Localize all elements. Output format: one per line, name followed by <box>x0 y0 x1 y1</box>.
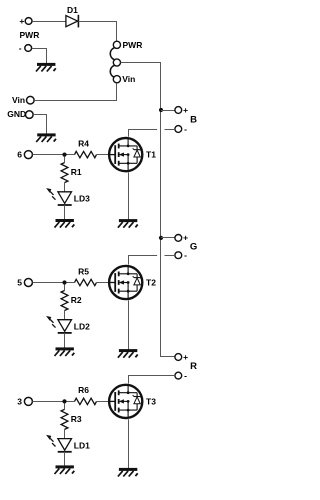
terminal PWR- <box>25 45 32 52</box>
wire <box>97 282 110 284</box>
node gate junction <box>62 153 66 157</box>
svg-text:Vin: Vin <box>12 95 25 105</box>
svg-text:T2: T2 <box>146 278 156 288</box>
node B+ junction <box>159 108 163 112</box>
svg-text:+: + <box>183 352 188 362</box>
ground <box>119 219 137 222</box>
node G+ junction <box>159 236 163 240</box>
LED LD3 <box>58 192 72 204</box>
wire <box>32 21 66 23</box>
svg-text:R3: R3 <box>71 414 82 424</box>
svg-text:D1: D1 <box>67 5 78 15</box>
wire drain <box>129 256 158 265</box>
wire <box>64 311 66 320</box>
wire <box>97 401 110 403</box>
svg-text:R: R <box>190 361 197 372</box>
wire <box>64 285 66 291</box>
transistor T2 <box>109 266 142 299</box>
jumper JP1 pin center <box>113 59 120 66</box>
wire <box>34 83 116 101</box>
terminal 6 <box>24 151 32 159</box>
resistor R1 <box>61 163 68 183</box>
svg-text:6: 6 <box>17 150 22 160</box>
terminal B+ <box>175 107 182 114</box>
terminal G- <box>175 252 182 259</box>
ground <box>37 63 55 66</box>
svg-text:LD2: LD2 <box>74 322 90 332</box>
svg-text:PWR: PWR <box>20 30 40 40</box>
wire <box>64 429 66 438</box>
wire <box>64 183 66 192</box>
wire <box>97 154 110 156</box>
jumper JP1 pin Vin <box>113 76 120 83</box>
node gate junction <box>62 280 66 284</box>
svg-text:+: + <box>19 16 24 26</box>
LED LD1 <box>58 439 72 451</box>
ground <box>119 349 137 352</box>
svg-text:-: - <box>184 370 187 380</box>
wire <box>33 282 75 284</box>
terminal G+ <box>175 235 182 242</box>
jumper arc 2 <box>110 65 114 77</box>
ground <box>37 133 55 136</box>
wire bus <box>121 63 175 357</box>
LED LD2 <box>58 320 72 332</box>
svg-text:R5: R5 <box>78 266 89 276</box>
diode D1 <box>66 16 78 27</box>
svg-text:R1: R1 <box>71 167 82 177</box>
wire <box>165 129 175 131</box>
wire source <box>128 300 130 349</box>
svg-text:R4: R4 <box>78 138 89 148</box>
resistor R6 <box>75 398 97 404</box>
svg-text:+: + <box>183 105 188 115</box>
svg-text:-: - <box>184 124 187 134</box>
ground <box>56 219 74 222</box>
ground <box>119 468 137 471</box>
wire <box>64 403 66 409</box>
transistor T3 <box>109 385 142 418</box>
jumper JP1 pin PWR <box>113 41 120 48</box>
terminal GND <box>26 111 34 119</box>
wire <box>78 22 116 42</box>
wire source <box>128 173 130 220</box>
wire <box>64 157 66 163</box>
svg-text:T1: T1 <box>146 150 156 160</box>
svg-text:5: 5 <box>17 278 22 288</box>
terminal Vin <box>27 96 35 104</box>
svg-text:+: + <box>183 233 188 243</box>
terminal PWR+ <box>25 18 32 25</box>
wire <box>33 115 46 134</box>
ground <box>56 347 74 350</box>
wire drain <box>129 376 175 384</box>
wire <box>33 154 75 156</box>
terminal 5 <box>24 279 32 287</box>
resistor R4 <box>75 151 97 157</box>
transistor T1 <box>109 138 142 171</box>
wire <box>32 49 47 64</box>
wire drain <box>129 130 158 137</box>
resistor R3 <box>61 409 68 429</box>
wire <box>161 237 175 239</box>
wire <box>161 110 175 112</box>
terminal R+ <box>175 354 182 361</box>
svg-text:B: B <box>190 114 197 125</box>
resistor R2 <box>61 291 68 311</box>
terminal B- <box>175 126 182 133</box>
svg-text:LD1: LD1 <box>74 441 90 451</box>
wire <box>64 452 66 466</box>
svg-text:R2: R2 <box>71 295 82 305</box>
svg-text:R6: R6 <box>78 385 89 395</box>
resistor R5 <box>75 279 97 285</box>
node gate junction <box>62 399 66 403</box>
svg-text:PWR: PWR <box>123 40 143 50</box>
svg-text:GND: GND <box>7 109 26 119</box>
jumper arc 1 <box>110 48 114 60</box>
ground <box>56 465 74 468</box>
svg-text:-: - <box>184 250 187 260</box>
svg-text:LD3: LD3 <box>74 194 90 204</box>
svg-text:T3: T3 <box>146 397 156 407</box>
svg-text:G: G <box>190 241 197 252</box>
svg-text:Vin: Vin <box>122 74 135 84</box>
terminal R- <box>175 372 182 379</box>
svg-text:3: 3 <box>17 397 22 407</box>
svg-text:-: - <box>19 43 22 53</box>
wire <box>33 401 75 403</box>
wire <box>64 333 66 348</box>
wire <box>64 205 66 219</box>
terminal 3 <box>24 397 32 405</box>
wire <box>165 255 175 257</box>
wire source <box>128 419 130 468</box>
